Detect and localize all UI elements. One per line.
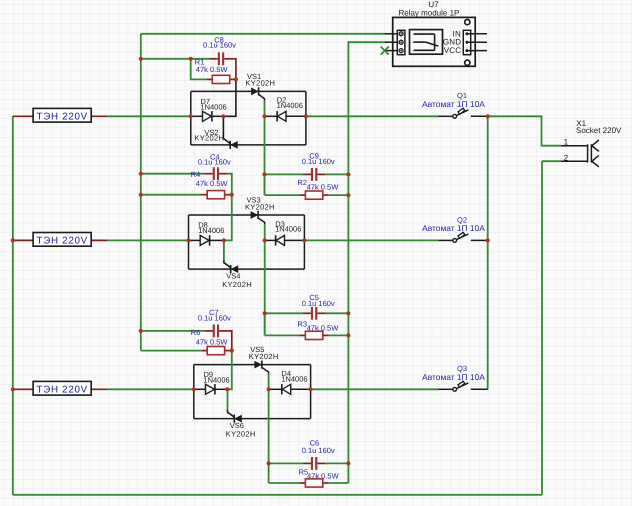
svg-text:VS6: VS6 [230,422,244,431]
junction box2 left [186,238,190,242]
circuit breaker Q1 [438,108,488,118]
wire left vertical bus from TEN1 down to bottom [12,116,14,495]
wire TEN1 to box left [108,115,191,117]
wire X1 pin1 lead [561,145,588,147]
junction D9 cathode [225,387,229,391]
junction box3 left [192,387,196,391]
svg-text:1N4006: 1N4006 [275,225,301,234]
junction C5 left [263,311,267,315]
wire R3 right [329,334,349,336]
heater TEN3 220V [13,381,108,395]
wire box right to breaker Q2 [304,239,438,241]
heater TEN1 220V [13,108,108,122]
svg-text:IN: IN [452,30,461,39]
svg-text:47k 0.5W: 47k 0.5W [196,66,228,75]
wire box top edge channel 1 [191,90,306,92]
wire C8 node horizontal [141,58,210,60]
svg-text:0.1u 160v: 0.1u 160v [302,446,335,455]
junction R3 right [346,333,350,337]
svg-text:47k 0.5W: 47k 0.5W [196,338,228,347]
relay U7 left pin header [397,30,405,54]
svg-text:1N4006: 1N4006 [203,376,229,385]
wire relay VCC pin right [467,50,487,52]
heater TEN2 220V [13,233,108,247]
junction C7 left [139,329,143,333]
resistor R2 [299,191,328,199]
wire TEN2 to box left [108,239,189,241]
wire C4 node horizontal [141,173,205,175]
svg-text:47k 0.5W: 47k 0.5W [196,180,228,189]
svg-text:0.1u 160v: 0.1u 160v [302,157,335,166]
junction C9 left [262,172,266,176]
capacitor C4 [204,167,227,180]
svg-text:ТЭН 220V: ТЭН 220V [37,235,88,246]
wire gate node vertical channel 3 [268,374,270,390]
wire relay pin3 lead [385,50,398,52]
connector X1 body [588,140,599,167]
svg-text:Автомат 1П 10А: Автомат 1П 10А [422,372,485,382]
junction D8 cathode [222,238,226,242]
svg-text:1N4006: 1N4006 [200,103,226,112]
junction gate node 1 [262,114,266,118]
wire box right to breaker Q3 [311,388,439,390]
capacitor C5 [303,307,326,320]
wire X1 pin2 lead [561,160,588,162]
svg-text:1N4006: 1N4006 [277,102,303,111]
thyristor VS5 [254,361,262,369]
wire R1 left lead up to C8 node [191,59,207,80]
wire box left edge channel 3 [193,365,195,419]
wire box right to breaker Q1 [306,115,438,117]
thyristor VS4 [231,265,239,273]
svg-text:Relay module 1P: Relay module 1P [398,9,459,18]
wire VS3 gate [259,218,265,225]
wire top bus to relay IN pin [141,33,386,35]
svg-text:R6: R6 [191,329,201,338]
svg-text:0.1u 160v: 0.1u 160v [203,41,236,50]
diode D7 [191,111,224,121]
wire box left edge channel 1 [190,91,192,144]
wire box right edge channel 3 [310,365,312,419]
junction R4 right [230,193,234,197]
thyristor VS2 [230,141,238,149]
svg-text:KY202H: KY202H [245,203,275,212]
svg-text:Автомат 1П 10А: Автомат 1П 10А [422,99,485,109]
wire relay GND pin right [467,41,487,43]
wire relay pin1 lead [385,33,398,35]
wire box left edge channel 2 [188,215,190,269]
junction R1/C8 [189,57,193,61]
relay module U7 mounting hole bottom [465,60,470,65]
junction R1 right [234,77,238,81]
svg-text:KY202H: KY202H [226,430,256,439]
wire C7 node horizontal [141,330,205,332]
resistor R5 [299,479,328,487]
wire D7 cathode node to VS2 gate [223,116,230,143]
junction box3 right [309,387,313,391]
wire C7 right down to R6 right [227,331,231,351]
wire VS5 gate [262,368,268,375]
wire R3 left [265,334,300,336]
junction Q2 output [486,238,490,242]
wire R6 junction down to D9 cathode node [228,351,232,390]
wire C9 right [326,173,349,175]
wire R1 junction down to D7 cathode node [223,79,236,116]
junction gate node 3 [267,387,271,391]
wire inner left bus vertical [140,34,142,351]
circuit breaker Q2 [438,232,488,242]
svg-text:U7: U7 [428,0,438,9]
wire C4 right down to R4 right [227,174,231,195]
capacitor C8 [210,52,233,65]
wire gate node 3 down to R5 [268,389,270,483]
junction R2 right [346,193,350,197]
wire gate node 2 down to R3 [264,240,266,335]
wire C6 right [326,462,349,464]
svg-text:KY202H: KY202H [222,280,252,289]
wire R4 junction down to D8 cathode node [224,195,232,241]
junction Q1 output [486,114,490,118]
junction box1 left [189,114,193,118]
wire Q output bus vertical [487,116,489,389]
thyristor VS1 [251,87,259,95]
thyristor VS6 [234,415,242,423]
diode D8 [189,235,224,245]
relay U7 right pin header [463,30,470,54]
resistor R1 [206,75,235,83]
svg-text:1N4006: 1N4006 [281,375,307,384]
wire R4 left to bus [141,194,201,196]
capacitor C6 [303,457,326,470]
junction C6 right [346,461,350,465]
wire R5 left corner [269,482,300,484]
wire box bottom edge channel 2 [189,268,305,270]
svg-text:VS4: VS4 [226,272,240,281]
relay U7 coil/contact body [410,30,443,55]
resistor R4 [201,191,230,199]
wire C5 right [326,312,349,314]
relay module U7 mounting hole top [465,20,470,25]
wire X1 pin2 vertical [541,161,543,495]
wire VS1 gate [259,95,265,102]
svg-text:KY202H: KY202H [249,352,279,361]
svg-text:0.1u 160v: 0.1u 160v [302,299,335,308]
wire bottom bus [13,494,542,496]
svg-text:ТЭН 220V: ТЭН 220V [37,384,88,395]
wire C5 left [265,312,303,314]
wire box bottom edge channel 1 [191,144,306,146]
wire D8 cathode node to VS4 gate [223,240,225,261]
diode D4 [269,384,311,394]
thyristor VS3 [251,211,259,219]
svg-text:47k 0.5W: 47k 0.5W [307,183,339,192]
svg-text:R4: R4 [191,171,201,180]
resistor R3 [299,331,328,339]
svg-text:Автомат 1П 10А: Автомат 1П 10А [422,223,485,233]
junction R4 left [139,193,143,197]
wire C9 R2 left vertical [264,174,266,195]
junction left bus TEN2 [11,238,15,242]
diode D3 [265,235,305,245]
svg-text:Socket 220V: Socket 220V [576,127,622,136]
junction C9 right [346,172,350,176]
junction C5 right [346,311,350,315]
junction box1 right [304,114,308,118]
wire X1 pin2 stub [542,160,561,162]
wire box top edge channel 3 [194,364,311,366]
wire inner left bus to R6 [141,350,201,352]
wire R5 right [329,482,349,484]
svg-text:GND: GND [443,38,461,47]
wire C8 right to R1 right junction [233,59,236,80]
relay module U7 outline [393,17,476,66]
junction box2 right [302,238,306,242]
circuit breaker Q3 [438,381,488,391]
svg-text:1N4006: 1N4006 [198,226,224,235]
junction left bus TEN3 [11,387,15,391]
junction D7 cathode [221,114,225,118]
wire gate node vertical channel 2 [264,224,266,240]
wire gate node 1 down to R2 [264,116,266,195]
wire Q1 junction to X1 pin1 [488,116,561,145]
svg-text:R3: R3 [297,320,307,329]
diode D9 [194,384,228,394]
wire C9 left [265,173,303,175]
no-connect X on relay VCC wire [381,47,389,55]
wire relay IN pin right [467,33,487,35]
junction C8 left [139,57,143,61]
wire D9 cathode node to VS6 gate [227,389,229,410]
svg-text:ТЭН 220V: ТЭН 220V [37,111,88,122]
svg-text:KY202H: KY202H [194,134,224,143]
junction C6 left [267,461,271,465]
wire box right edge channel 2 [303,215,305,269]
diode D2 [265,111,306,121]
wire TEN3 to box left [108,388,194,390]
wire box top edge channel 2 [189,214,305,216]
wire relay pin2 lead [385,41,398,43]
junction gate node 2 [263,238,267,242]
svg-text:R2: R2 [297,178,307,187]
relay U7 pin labels IN GND VCC [443,30,461,55]
svg-text:KY202H: KY202H [246,79,276,88]
capacitor C9 [303,168,326,181]
capacitor C7 [204,325,227,338]
wire box bottom edge channel 3 [194,418,311,420]
junction C4 left [139,172,143,176]
wire gate node vertical channel 1 [264,100,266,116]
wire R2 right [329,194,349,196]
junction R6 right [230,349,234,353]
wire C5 R3 left vertical [264,313,266,335]
svg-text:0.1u 160v: 0.1u 160v [198,314,231,323]
wire C6 left [269,462,303,464]
wire relay GND to snubber bus vertical [348,42,386,483]
wire box right edge channel 1 [305,91,307,144]
wire R2 left [265,194,300,196]
svg-text:0.1u 160v: 0.1u 160v [198,158,231,167]
svg-text:VCC: VCC [444,47,461,56]
resistor R6 [201,347,230,355]
